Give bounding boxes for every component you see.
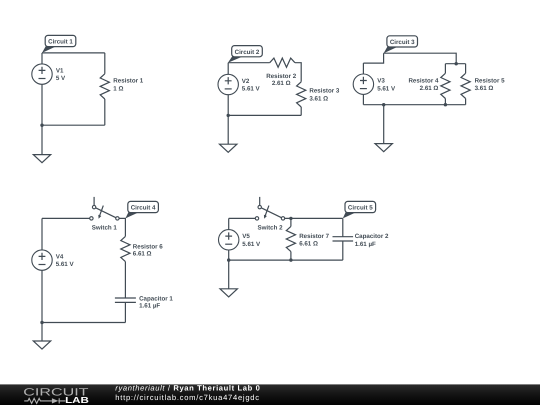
svg-text:5 V: 5 V (56, 75, 66, 82)
ground circuit 2 (220, 144, 237, 152)
ground circuit 5 (220, 289, 237, 297)
svg-text:1.61 µF: 1.61 µF (355, 241, 376, 248)
voltage source V1 (32, 64, 52, 84)
node R7 bottom junction (289, 258, 292, 261)
svg-text:Circuit 3: Circuit 3 (390, 39, 415, 46)
wire top rail circuit 2 (228, 62, 270, 64)
wire ground stem circuit 4 (41, 323, 43, 342)
svg-text:Circuit 4: Circuit 4 (131, 205, 156, 212)
wire capacitor branch top (342, 218, 344, 236)
wire bottom rail circuit 1 (42, 124, 105, 126)
svg-text:Resistor 6: Resistor 6 (133, 243, 163, 250)
wire V4 top stub (41, 218, 43, 250)
node junction circuit 5 (227, 258, 230, 261)
svg-text:Resistor 1: Resistor 1 (113, 77, 143, 84)
wire R2 to right corner down (295, 63, 301, 82)
wire top-left down to V1 (41, 53, 43, 64)
wire R5 top stub (465, 64, 467, 74)
resistor R5 (Resistor 5) (461, 73, 470, 98)
svg-text:Circuit 5: Circuit 5 (348, 205, 373, 212)
svg-text:Resistor 3: Resistor 3 (309, 88, 339, 95)
wire V5 top stub (228, 218, 230, 229)
wire capacitor branch bottom (342, 241, 344, 260)
svg-text:3.61 Ω: 3.61 Ω (475, 85, 494, 92)
wire bottom rail circuit 4 (42, 322, 125, 324)
wire V3 top stub (362, 63, 364, 74)
wire R4 bottom stub (444, 99, 446, 105)
svg-text:Capacitor 1: Capacitor 1 (139, 295, 173, 302)
wire V5 bottom to rail (228, 250, 230, 260)
node junction circuit 2 (227, 114, 230, 117)
svg-text:Resistor 2: Resistor 2 (266, 73, 296, 80)
ground circuit 1 (33, 155, 50, 163)
svg-text:5.61 V: 5.61 V (56, 261, 75, 268)
svg-text:Circuit 1: Circuit 1 (48, 39, 73, 46)
wire ground stem circuit 5 (228, 260, 230, 289)
wire capacitor to rail (124, 302, 126, 322)
node Circuit 3 callout (384, 46, 400, 53)
node R7 top junction (289, 217, 292, 220)
wire switch top stub (259, 197, 261, 205)
wire R4 top stub (444, 64, 446, 74)
svg-text:http://circuitlab.com/c7kua474: http://circuitlab.com/c7kua474ejgdc (115, 393, 260, 402)
wire R7 bottom stub (290, 252, 292, 261)
ground circuit 3 (375, 144, 392, 152)
svg-text:V5: V5 (242, 233, 250, 240)
svg-text:Resistor 5: Resistor 5 (475, 78, 505, 85)
voltage source V2 (218, 74, 238, 94)
ground circuit 4 (33, 341, 50, 349)
voltage source V5 (219, 230, 239, 250)
svg-text:Capacitor 2: Capacitor 2 (355, 233, 389, 240)
svg-text:Resistor 4: Resistor 4 (408, 78, 438, 85)
wire right branch down to R1 (104, 53, 106, 74)
wire switch top stub (93, 197, 95, 205)
svg-text:V1: V1 (56, 67, 64, 74)
wire jog to top rail (363, 53, 383, 63)
svg-text:Switch 1: Switch 1 (92, 225, 118, 232)
svg-text:2.61 Ω: 2.61 Ω (272, 80, 291, 87)
node Circuit 1 callout (42, 45, 58, 53)
resistor R4 (Resistor 4) (441, 73, 450, 98)
wire top rail left circuit 5 (229, 217, 256, 219)
wire R3 bottom to rail (300, 107, 302, 115)
svg-text:1 Ω: 1 Ω (113, 86, 123, 93)
svg-text:Resistor 7: Resistor 7 (299, 233, 329, 240)
svg-text:ryantheriault / Ryan Theriault: ryantheriault / Ryan Theriault Lab 0 (115, 384, 260, 393)
wire V1 bottom to rail (41, 84, 43, 125)
switch Switch 1 (90, 205, 119, 220)
logo diode symbol (52, 398, 58, 403)
svg-text:5.61 V: 5.61 V (242, 86, 261, 93)
node junction circuit 1 (40, 124, 43, 127)
node Circuit 4 callout (125, 211, 140, 218)
wire bottom rail circuit 5 (229, 259, 343, 261)
resistor R2 (Resistor 2) (270, 58, 295, 67)
node junction circuit 4 (40, 321, 43, 324)
svg-text:LAB: LAB (65, 395, 89, 405)
capacitor C2 (Capacitor 2) (333, 236, 354, 238)
wire switch to branch (119, 218, 125, 236)
wire R5 bottom stub (465, 99, 467, 105)
wire top rail circuit 4 (42, 217, 90, 219)
logo resistor zigzag motif (24, 398, 52, 403)
capacitor C1 (Capacitor 1) (115, 297, 136, 299)
wire top rail circuit 1 (42, 52, 105, 54)
node Circuit 2 callout (228, 56, 245, 63)
wire R1 bottom to rail (104, 99, 106, 125)
wire V4 bottom to rail (41, 270, 43, 322)
svg-text:2.61 Ω: 2.61 Ω (420, 85, 439, 92)
svg-text:V2: V2 (242, 78, 250, 85)
wire V2 top stub (227, 63, 229, 75)
voltage source V3 (353, 74, 373, 94)
wire parallel top connector (445, 63, 465, 65)
wire top rail circuit 3 (384, 53, 457, 64)
wire V2 bottom to rail (227, 95, 229, 116)
switch Switch 2 (255, 205, 284, 220)
svg-text:Switch 2: Switch 2 (257, 225, 283, 232)
resistor R7 (Resistor 7) (286, 226, 295, 251)
wire ground stem circuit 2 (227, 115, 229, 144)
svg-text:5.61 V: 5.61 V (377, 85, 396, 92)
node Circuit 5 callout (343, 211, 358, 218)
svg-text:V3: V3 (377, 78, 385, 85)
wire ground stem circuit 3 (383, 105, 385, 144)
svg-text:1.61 µF: 1.61 µF (139, 303, 160, 310)
svg-text:V4: V4 (56, 253, 64, 260)
wire top rail right circuit 5 (285, 217, 343, 219)
svg-text:3.61 Ω: 3.61 Ω (309, 95, 328, 102)
resistor R3 (Resistor 3) (297, 82, 306, 107)
wire bottom rail circuit 2 (228, 114, 301, 116)
wire V3 bottom to rail (362, 94, 364, 104)
svg-text:5.61 V: 5.61 V (242, 241, 261, 248)
svg-text:6.61 Ω: 6.61 Ω (299, 241, 318, 248)
voltage source V4 (32, 250, 52, 270)
wire bottom rail circuit 3 (363, 104, 465, 106)
wire R7 top stub (290, 218, 292, 226)
resistor R6 (Resistor 6) (121, 236, 130, 261)
wire R6 to capacitor (124, 262, 126, 298)
resistor R1 (Resistor 1) (100, 74, 109, 99)
node junction R4 bottom (444, 103, 447, 106)
svg-text:6.61 Ω: 6.61 Ω (133, 251, 152, 258)
svg-text:Circuit 2: Circuit 2 (235, 49, 260, 56)
node parallel top junction (455, 62, 458, 65)
node junction ground circuit 3 (382, 103, 385, 106)
wire ground stem circuit 1 (41, 125, 43, 154)
